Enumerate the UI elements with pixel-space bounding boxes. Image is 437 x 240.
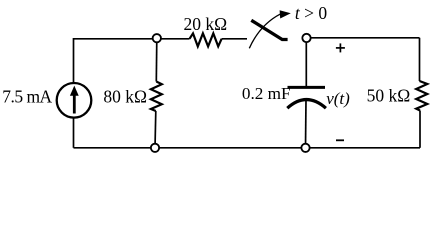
switch motion arc bbox=[249, 14, 280, 48]
svg-text:80 kΩ: 80 kΩ bbox=[103, 86, 147, 106]
resistor 20 kOhm zigzag bbox=[190, 33, 222, 46]
wire 80k top stub bbox=[155, 39, 158, 82]
wire resistor to switch bbox=[222, 38, 247, 40]
svg-text:0.2 mF: 0.2 mF bbox=[242, 84, 291, 103]
wire 80k bottom stub bbox=[154, 111, 157, 148]
wire capacitor top stub bbox=[305, 38, 307, 87]
wire left vertical lower bbox=[73, 118, 75, 148]
wire capacitor bottom stub bbox=[305, 100, 308, 148]
current source arrow shaft bbox=[73, 95, 76, 114]
current source arrowhead bbox=[70, 86, 79, 96]
switch arrowhead bbox=[280, 10, 291, 18]
svg-text:v(t): v(t) bbox=[326, 89, 350, 108]
label minus bbox=[336, 139, 344, 141]
wire left vertical upper bbox=[73, 38, 75, 83]
svg-text:7.5 mA: 7.5 mA bbox=[2, 87, 52, 107]
wire node B to top right corner bbox=[307, 37, 420, 39]
node B right switch contact bbox=[302, 34, 310, 42]
switch blade bbox=[251, 20, 287, 39]
wire top left horizontal bbox=[74, 38, 190, 40]
resistor 80 kOhm zigzag bbox=[151, 82, 162, 112]
capacitor top plate bbox=[288, 86, 326, 89]
svg-text:20 kΩ: 20 kΩ bbox=[184, 14, 228, 34]
svg-text:50 kΩ: 50 kΩ bbox=[367, 85, 411, 105]
node A top of 80k bbox=[153, 34, 161, 42]
node D bottom of capacitor bbox=[301, 144, 309, 152]
wire right vertical lower bbox=[419, 111, 421, 148]
label plus bbox=[336, 43, 345, 52]
node C bottom of 80k bbox=[151, 144, 159, 152]
wire right vertical upper bbox=[419, 38, 421, 81]
wire bottom horizontal bbox=[74, 147, 421, 149]
svg-text:t > 0: t > 0 bbox=[295, 3, 327, 23]
resistor 50 kOhm zigzag bbox=[416, 81, 427, 111]
capacitor bottom plate arc bbox=[287, 100, 326, 109]
current source circle bbox=[57, 83, 92, 118]
